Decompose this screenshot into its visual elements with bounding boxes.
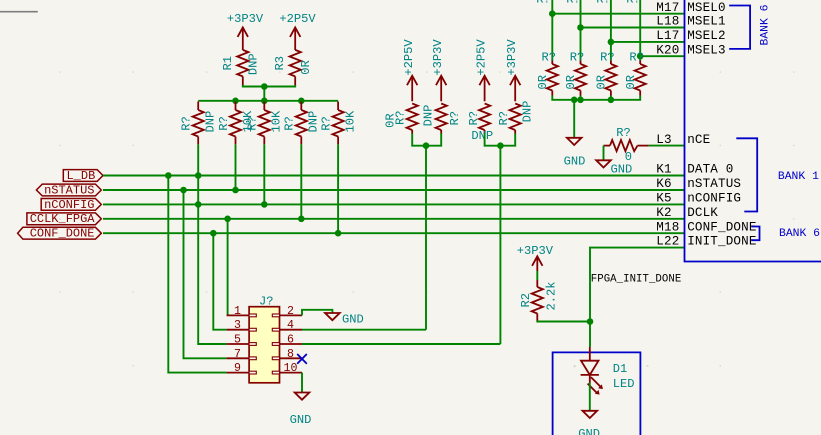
svg-text:R1: R1 (221, 56, 235, 71)
junction MSEL2 (608, 39, 615, 46)
svg-text:10: 10 (284, 362, 298, 375)
wire nCONFIG row (103, 203, 685, 205)
pin M17 number (656, 1, 679, 15)
svg-text:M18: M18 (656, 220, 679, 234)
svg-text:nCONFIG: nCONFIG (44, 198, 94, 212)
bracket BANK 6 (conf/init) (751, 227, 759, 241)
junction nSTATUS x183.5 (180, 187, 187, 194)
power +3P3V (pair2 right) (505, 39, 521, 102)
pin 6 number (287, 334, 294, 347)
pin K1 number (656, 163, 671, 177)
svg-text:K20: K20 (656, 43, 679, 57)
svg-text:10K: 10K (270, 110, 284, 133)
junction L_DB x168.3 (165, 172, 172, 179)
wire pin4 row (302, 329, 426, 331)
wire MSEL0 to pin M17 (552, 13, 684, 15)
junction L_DB x198.2 (195, 172, 202, 179)
svg-text:DCLK: DCLK (687, 206, 718, 220)
junction msel bus x610.9 (608, 97, 615, 104)
junction CONF_DONE x338.1 (335, 230, 342, 237)
svg-text:DNP: DNP (520, 101, 534, 123)
resistor R? DNP (row2 #1) (180, 102, 218, 145)
pin 8 number (287, 348, 294, 361)
svg-text:nCE: nCE (687, 133, 710, 147)
resistor R1 DNP (221, 49, 261, 85)
junction DCLK x227.6 (224, 216, 231, 223)
svg-text:L_DB: L_DB (66, 169, 95, 183)
resistor R? 0 (nCE series) (604, 126, 649, 164)
bracket BANK 1 (736, 138, 757, 211)
svg-text:0R: 0R (299, 60, 313, 75)
svg-text:nCONFIG: nCONFIG (687, 192, 741, 206)
pin 8 line (272, 357, 302, 360)
wire row2 r3 to nCONFIG (263, 144, 265, 204)
wire row2 r4 to DCLK (300, 144, 302, 219)
pin 2 line (272, 314, 302, 317)
svg-text:R?: R? (536, 0, 551, 6)
svg-text:R?: R? (467, 111, 481, 126)
svg-text:L17: L17 (656, 29, 679, 43)
svg-text:CCLK_FPGA: CCLK_FPGA (30, 212, 96, 226)
svg-text:9: 9 (234, 362, 241, 375)
pin 10 line (272, 371, 302, 374)
wire pin6 row (302, 343, 500, 345)
svg-text:4: 4 (287, 319, 294, 332)
svg-text:INIT_DONE: INIT_DONE (687, 235, 756, 249)
page corner gray line (0, 11, 38, 13)
svg-text:0R: 0R (564, 75, 578, 90)
grid dots (59, 71, 794, 367)
svg-text:+2P5V: +2P5V (402, 39, 416, 76)
pin MSEL2 name (687, 29, 726, 43)
resistor R? 10K (row2 #2) (217, 102, 255, 145)
svg-text:GND: GND (578, 427, 600, 435)
wire CCLK_FPGA / DCLK row (103, 218, 685, 220)
svg-text:GND: GND (564, 155, 586, 169)
resistor R? 0R (msel #2) (564, 50, 586, 95)
svg-text:GND: GND (342, 313, 364, 327)
wire LED cathode to GND (589, 383, 591, 411)
pin 3 number (234, 319, 241, 332)
cut-off resistor ref R? (top #4) (626, 0, 641, 6)
wire nCE resistor left to GND (603, 146, 605, 161)
ground GND (msel bus) (564, 138, 586, 169)
pin 1 number (234, 305, 241, 318)
pin 7 line (227, 357, 257, 360)
resistor R? 0R (msel #1) (536, 50, 558, 95)
svg-text:DNP: DNP (421, 105, 435, 127)
wire row2 r5 to CONF_DONE (337, 144, 339, 233)
hierarchical label nCONFIG (41, 198, 101, 212)
pin 1 line (227, 314, 257, 317)
svg-text:nSTATUS: nSTATUS (44, 183, 94, 197)
pin L3 number (656, 133, 671, 147)
junction pair2 (497, 142, 504, 149)
svg-text:R?: R? (180, 116, 194, 131)
svg-text:R?: R? (596, 0, 611, 6)
wire nCE resistor to pin L3 (649, 145, 685, 147)
junction MSEL3 (637, 53, 644, 60)
power +3P3V (R2) (517, 244, 554, 271)
ground GND (pin2) (325, 313, 364, 327)
svg-text:0R: 0R (624, 75, 638, 90)
pin L17 number (656, 29, 679, 43)
pin M18 number (656, 220, 679, 234)
svg-text:GND: GND (611, 163, 633, 177)
svg-text:1: 1 (234, 305, 241, 318)
no-connect X pin 8 (297, 354, 307, 364)
wire row2 r1 long vertical to pin5 (198, 144, 226, 344)
svg-text:R?: R? (246, 116, 260, 131)
LED D1 (581, 347, 635, 395)
pin DCLK name (687, 206, 718, 220)
hierarchical label nSTATUS (36, 183, 101, 197)
svg-text:K6: K6 (656, 177, 671, 191)
wire R1-R3 bottoms (243, 85, 295, 87)
label BANK 6 (msel) vertical (759, 4, 771, 45)
svg-text:R?: R? (217, 116, 231, 131)
junction nCONFIG x198.2 (195, 201, 202, 208)
power +2P5V (top left) (279, 12, 316, 50)
resistor R? 0R (pair1 left) (384, 104, 418, 134)
junction msel bus x580.5 (577, 97, 584, 104)
wire pair2 down to J pin6 (499, 146, 501, 344)
svg-text:R?: R? (283, 116, 297, 131)
junction msel bus x574.2 (571, 97, 578, 104)
pin 4 line (272, 328, 302, 331)
resistor R2 2.2k (519, 280, 559, 321)
pin 6 line (272, 343, 302, 346)
svg-text:R?: R? (629, 50, 644, 64)
pin L18 number (656, 15, 679, 29)
connector J? body (249, 294, 279, 382)
svg-text:R?: R? (570, 50, 585, 64)
svg-text:MSEL2: MSEL2 (687, 29, 726, 43)
wire msel resistors bottom bus (552, 96, 640, 100)
svg-text:L18: L18 (656, 15, 679, 29)
hierarchical label CONF_DONE (18, 227, 102, 241)
wire L_DB down to J pin9 (168, 176, 226, 373)
wire pin10 to GND (301, 373, 303, 393)
wire nSTATUS row (103, 189, 685, 191)
wire row2 r2 to nSTATUS (235, 144, 237, 190)
pin CONF_DONE name (687, 220, 756, 234)
svg-text:R?: R? (616, 126, 631, 140)
wire pullup bus (198, 100, 338, 102)
wire MSEL2 to pin L17 (611, 41, 685, 43)
svg-text:GND: GND (290, 413, 312, 427)
junction R1/R3 (261, 83, 268, 90)
svg-text:+3P3V: +3P3V (431, 39, 445, 76)
svg-text:R?: R? (542, 50, 557, 64)
wire feed down to pullup bus (263, 87, 265, 101)
wire MSEL2 vertical from top (610, 0, 612, 61)
svg-text:BANK 6: BANK 6 (759, 4, 771, 45)
svg-text:L3: L3 (656, 133, 671, 147)
pin 4 number (287, 319, 294, 332)
svg-text:R?: R? (320, 116, 334, 131)
power +2P5V (pair2 left) (474, 39, 490, 102)
pin K6 number (656, 177, 671, 191)
svg-text:DNP: DNP (247, 53, 261, 75)
svg-text:+3P3V: +3P3V (505, 39, 519, 76)
junction MSEL1 (577, 24, 584, 31)
ground GND (pin10) (290, 393, 312, 428)
resistor R? 10K (row2 #5) (320, 102, 358, 145)
resistor R? DNP (pair1 right) (421, 104, 462, 134)
bracket BANK 6 (msel) (729, 6, 750, 49)
wire MSEL3 to pin K20 (640, 55, 684, 57)
wire MSEL1 vertical from top (580, 0, 582, 61)
svg-text:MSEL3: MSEL3 (687, 43, 726, 57)
hierarchical label L_DB (63, 169, 103, 183)
svg-text:DNP: DNP (307, 111, 321, 133)
wire pair1 down to J pin4 (425, 146, 427, 330)
pin 9 number (234, 362, 241, 375)
svg-text:MSEL0: MSEL0 (687, 1, 726, 15)
junction bus x264.3 (261, 98, 268, 105)
junction pair1 (423, 142, 430, 149)
resistor R? 0R (msel #4) (624, 50, 646, 95)
junction MSEL0 (549, 10, 556, 17)
svg-text:10K: 10K (343, 110, 357, 133)
power +3P3V (pair1 right) (431, 39, 447, 102)
power +2P5V (pair1 left) (402, 39, 418, 102)
svg-text:+2P5V: +2P5V (474, 39, 488, 76)
ground GND (LED) (578, 411, 600, 435)
pin K2 number (656, 206, 671, 220)
svg-text:R?: R? (497, 111, 511, 126)
svg-text:0R: 0R (595, 75, 609, 90)
pin 5 line (227, 343, 257, 346)
resistor R3 0R (273, 49, 313, 85)
svg-text:D1: D1 (613, 362, 628, 376)
label BANK 1 (778, 171, 819, 183)
pin 5 number (234, 334, 241, 347)
svg-text:R?: R? (600, 50, 615, 64)
svg-text:+3P3V: +3P3V (517, 244, 554, 258)
svg-text:BANK 6: BANK 6 (779, 228, 820, 240)
svg-text:R?: R? (566, 0, 581, 6)
svg-text:K1: K1 (656, 163, 671, 177)
pin nCE name (687, 133, 710, 147)
wire LED anode (589, 322, 591, 348)
svg-text:2: 2 (287, 305, 294, 318)
cut-off resistor ref R? (top #2) (566, 0, 581, 6)
pin nCONFIG name (687, 192, 741, 206)
junction bus x235.5 (232, 98, 239, 105)
wire CONF_DONE down to J pin3 (213, 233, 226, 330)
pin nSTATUS name (687, 177, 741, 191)
svg-text:FPGA_INIT_DONE: FPGA_INIT_DONE (591, 274, 682, 286)
wire CCLK down to J pin1 (227, 219, 229, 316)
svg-text:LED: LED (613, 377, 635, 391)
wire pair1 bottoms join (412, 133, 441, 145)
wire msel bus to GND (573, 100, 575, 138)
LED sheet box (553, 352, 641, 435)
power +3P3V (top left) (227, 12, 264, 50)
cut-off resistor ref R? (top #1) (536, 0, 551, 6)
svg-text:0R: 0R (536, 75, 550, 90)
pin MSEL0 name (687, 1, 726, 15)
pin 7 number (234, 348, 241, 361)
wire MSEL3 vertical from top (639, 0, 641, 61)
svg-text:R?: R? (448, 111, 462, 126)
resistor R? 0R (msel #3) (595, 50, 617, 95)
junction DCLK x301.3 (298, 216, 305, 223)
hierarchical label CCLK_FPGA (27, 212, 101, 226)
svg-text:R?: R? (394, 111, 408, 126)
svg-text:R3: R3 (273, 56, 287, 71)
svg-text:nSTATUS: nSTATUS (687, 177, 741, 191)
pin MSEL1 name (687, 15, 726, 29)
pin L22 number (656, 235, 679, 249)
wire +3P3V to R2 (536, 271, 538, 280)
svg-text:K2: K2 (656, 206, 671, 220)
wire MSEL0 vertical from top (551, 0, 553, 61)
resistor R? DNP (row2 #4) (283, 102, 321, 145)
wire pin2 to GND (302, 310, 332, 316)
svg-text:6: 6 (287, 334, 294, 347)
svg-text:3: 3 (234, 319, 241, 332)
svg-text:K5: K5 (656, 192, 671, 206)
pin K5 number (656, 192, 671, 206)
resistor R? 10K (row2 #3) (246, 102, 284, 145)
pin DATA 0 name (687, 163, 733, 177)
label BANK 6 (conf/init) (779, 228, 820, 240)
pin K20 number (656, 43, 679, 57)
wire INIT_DONE from pin L22 down (590, 248, 685, 322)
svg-text:CONF_DONE: CONF_DONE (30, 227, 95, 241)
svg-text:DNP: DNP (204, 111, 218, 133)
FPGA U? body edge (685, 0, 821, 262)
pin 3 line (227, 328, 257, 331)
svg-text:L22: L22 (656, 235, 679, 249)
junction bus x301.3 (298, 98, 305, 105)
svg-text:7: 7 (234, 348, 241, 361)
ground GND (nCE) (596, 160, 632, 176)
junction CONF_DONE x213.3 (210, 230, 217, 237)
svg-text:+3P3V: +3P3V (227, 12, 264, 26)
svg-text:8: 8 (287, 348, 294, 361)
svg-text:BANK 1: BANK 1 (778, 171, 819, 183)
svg-text:R2: R2 (519, 293, 533, 308)
junction nSTATUS x235.5 (232, 187, 239, 194)
svg-text:M17: M17 (656, 1, 679, 15)
wire R2 bottom to LED net (537, 321, 590, 322)
pin MSEL3 name (687, 43, 726, 57)
pin 10 number (284, 362, 298, 375)
svg-text:2.2k: 2.2k (544, 281, 558, 310)
junction INIT_DONE net (587, 318, 594, 325)
wire nSTATUS down to J pin7 (184, 190, 227, 358)
svg-text:R?: R? (626, 0, 641, 6)
cut-off resistor ref R? (top #3) (596, 0, 611, 6)
resistor R? DNP (pair2 left) (467, 104, 493, 143)
pin 9 line (227, 371, 257, 374)
svg-text:J?: J? (259, 294, 274, 308)
svg-text:+2P5V: +2P5V (279, 12, 316, 26)
wire pair2 bottoms join (485, 133, 516, 145)
junction nCONFIG x264.3 (261, 201, 268, 208)
wire CONF_DONE row (103, 232, 685, 234)
svg-text:MSEL1: MSEL1 (687, 15, 726, 29)
svg-text:DATA 0: DATA 0 (687, 163, 733, 177)
svg-text:CONF_DONE: CONF_DONE (687, 220, 756, 234)
wire MSEL1 to pin L18 (581, 27, 685, 29)
wire L_DB / DATA0 row (103, 175, 685, 177)
svg-text:5: 5 (234, 334, 241, 347)
pin 2 number (287, 305, 294, 318)
pin INIT_DONE name (687, 235, 756, 249)
svg-text:DNP: DNP (471, 129, 493, 143)
resistor R? DNP (pair2 right) (497, 101, 535, 134)
label FPGA_INIT_DONE (591, 274, 682, 286)
